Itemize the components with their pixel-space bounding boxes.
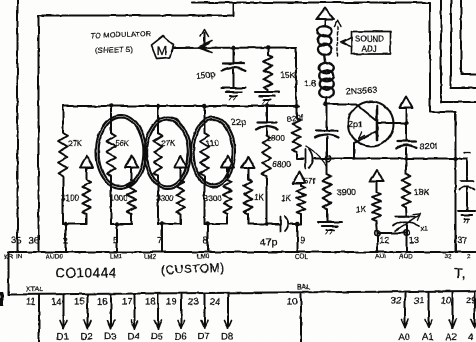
inductor lower winding 1.8: [319, 63, 334, 104]
junction pin12 node: [375, 230, 381, 236]
wire channel 3 to pin: [161, 224, 163, 252]
callout SOUND ADJ: [341, 32, 391, 55]
wire right bus corner 1: [441, 0, 476, 102]
arrow up channel 1: [80, 156, 93, 168]
junction channel 4 on bus: [202, 104, 206, 108]
label 47p: [260, 237, 278, 249]
resistor 1000 channel 2: [127, 168, 135, 225]
pin name AUI: [375, 254, 386, 261]
junction channel 1 bottom: [63, 222, 67, 226]
junction 6800 bottom: [265, 222, 268, 225]
inductor upper winding: [318, 26, 332, 63]
wire top horizontal net: [192, 2, 430, 4]
junction channel 3 on bus: [156, 104, 160, 108]
ellipse highlight 1: [96, 115, 146, 189]
label T: [454, 265, 466, 282]
pin 29 wire with arrow 4: [471, 293, 476, 328]
pin 11 wire: [38, 295, 40, 342]
label 1800: [267, 134, 285, 143]
capacitor 820f right: [397, 123, 417, 159]
arrow up channel 4: [221, 156, 234, 168]
junction output-820f: [326, 156, 331, 161]
ground bypass right: [459, 211, 476, 223]
pin 16 wire with arrow D3: [108, 295, 115, 329]
label 1.8: [304, 78, 316, 88]
label 3900: [337, 187, 356, 197]
label 6800: [272, 159, 291, 169]
label A2: [446, 332, 458, 342]
label 110 channel 4: [206, 139, 219, 148]
wire channel 1 bottom: [63, 223, 87, 225]
label 1K third: [356, 205, 366, 214]
label D3: [104, 332, 116, 342]
label 1000 channel 2: [110, 194, 128, 203]
pin number 15: [74, 297, 85, 308]
pin 19 wire with arrow D6: [178, 295, 185, 329]
resistor 110 channel 4: [200, 106, 209, 224]
label 56K channel 2: [115, 139, 130, 148]
ground below 15K: [255, 92, 279, 104]
pin number 35: [11, 236, 22, 247]
label D8: [221, 332, 233, 342]
resistor 1K second: [297, 183, 306, 224]
junction 150p: [231, 45, 235, 49]
pin number 2: [63, 236, 68, 247]
junction 1800 top: [294, 104, 298, 108]
pin number 24: [210, 297, 221, 308]
capacitor 57f series: [297, 146, 330, 168]
pin name AUD0: [46, 254, 63, 261]
wire pin-36 net (up and across top to right): [39, 3, 234, 253]
junction channel 3 bottom: [160, 222, 164, 226]
label 3300 channel 4: [204, 194, 222, 203]
resistor 3300 channel 4: [223, 168, 231, 225]
pin name COL: [295, 254, 308, 261]
trimmer capacitor: [393, 213, 421, 231]
label 150p: [195, 69, 216, 81]
resistor 56K channel 2: [107, 106, 116, 224]
resistor 3900: [323, 159, 332, 223]
pin 31 wire with arrow A1: [425, 293, 432, 328]
label (CUSTOM): [161, 261, 225, 277]
junction channel 2 on bus: [109, 104, 113, 108]
wire audio summing bus: [63, 105, 299, 107]
pin number 36: [29, 236, 40, 247]
label D1: [57, 332, 69, 342]
arrow up channel 2: [125, 156, 138, 168]
junction coil base: [323, 102, 327, 106]
junction collector cap: [404, 156, 408, 160]
wire right bus corner 2: [451, 0, 476, 88]
label 15K: [280, 70, 295, 80]
label 3100 channel 1: [61, 194, 79, 203]
label A1: [422, 332, 434, 342]
pin 14 wire with arrow D1: [60, 295, 67, 329]
wire 1K to 47p: [248, 223, 280, 225]
pin number 16: [97, 297, 108, 308]
wire channel 4 bottom: [205, 223, 228, 225]
resistor 1800: [292, 106, 301, 152]
resistor 15K: [264, 48, 273, 93]
label 57f: [304, 176, 316, 186]
IC CO10444 box outline: [9, 252, 476, 295]
tick mark: [464, 152, 470, 154]
pin number 11: [26, 297, 36, 308]
pin number 9: [300, 236, 305, 247]
pin number 10 right: [441, 296, 452, 307]
pin 17 wire with arrow D4: [131, 295, 138, 329]
label BAL: [297, 285, 310, 292]
junction 15K: [266, 45, 270, 49]
arrow up at modulator node: [201, 30, 209, 48]
label (SHEET 5): [95, 45, 134, 55]
junction channel 2 bottom: [115, 222, 119, 226]
power arrow 1K third: [370, 170, 384, 182]
pin name LM0: [197, 254, 210, 261]
label 4: [468, 332, 473, 342]
ground below 150p: [222, 88, 246, 100]
wire emitter down: [353, 143, 355, 159]
pin 10 BAL wire: [300, 294, 302, 342]
pin number 31 right: [414, 296, 425, 307]
pin number 10 left: [287, 297, 298, 308]
wire pin9: [297, 224, 299, 252]
pin name AOD: [399, 254, 413, 261]
pin name IN: [16, 254, 23, 261]
label D6: [175, 332, 187, 342]
pin number 12: [379, 236, 390, 247]
capacitor 150p: [222, 48, 245, 88]
label ADJ: [362, 45, 377, 54]
resistor 27K channel 3: [154, 106, 163, 224]
pin number 32 right: [391, 296, 402, 307]
pin name KR: [4, 254, 13, 261]
resistor 1K third: [372, 182, 381, 234]
pin 32 wire with arrow A0: [402, 293, 409, 328]
junction pin13 node: [404, 230, 410, 236]
pin 15 wire with arrow D2: [84, 295, 91, 329]
pin number 18: [145, 297, 156, 308]
wire channel 2 bottom: [111, 223, 132, 225]
label 820f right: [419, 141, 438, 152]
label 27K channel 1: [68, 139, 83, 148]
wire collector: [378, 122, 406, 124]
wire node down to audio bus: [295, 48, 297, 107]
pin number 19: [166, 297, 177, 308]
wire pin-35 net (long vertical from top edge): [17, 0, 19, 252]
resistor 6800: [262, 135, 271, 224]
pin number 17: [122, 297, 133, 308]
pin number 7: [157, 236, 162, 247]
wire trimmer to pins 12 13: [378, 225, 407, 252]
wire top-right jog down to pin 37: [430, 3, 456, 253]
pin 10 wire with arrow A2: [449, 293, 456, 328]
pin number 8: [203, 236, 208, 247]
ellipse highlight 2: [145, 117, 191, 189]
wire output node: [329, 158, 467, 160]
capacitor 47p: [281, 217, 302, 232]
label CO10444: [55, 266, 117, 281]
pin number 14: [51, 297, 62, 308]
scan smudge left edge: [0, 292, 4, 306]
pin number 23: [188, 297, 199, 308]
pin number 13: [409, 236, 420, 247]
capacitor 820f left: [316, 104, 339, 159]
label 1K first: [254, 193, 264, 202]
pin number 29 right: [466, 296, 476, 307]
label D5: [151, 332, 163, 342]
wire to bypass cap: [456, 159, 468, 182]
wire base from coil: [326, 103, 357, 105]
label 2N3563: [345, 85, 377, 97]
pin 23 wire with arrow D7: [201, 295, 208, 329]
label 27K channel 3: [161, 139, 176, 148]
label 3300 channel 3: [156, 194, 174, 203]
label D4: [128, 332, 140, 342]
label 22p: [231, 117, 246, 127]
wire right bus corner 3: [461, 0, 476, 74]
wire channel 3 bottom: [158, 223, 181, 225]
pin number 37: [457, 236, 468, 247]
ground below 3900: [318, 222, 342, 234]
pin name LM2: [144, 254, 157, 261]
junction pin37 wire: [453, 156, 457, 160]
arrowhead toward modulator: [198, 41, 213, 53]
pin number 5: [113, 236, 118, 247]
power arrow 1K first: [242, 157, 255, 169]
junction channel 4 bottom: [206, 222, 210, 226]
power arrow collector: [400, 97, 413, 124]
ellipse highlight 3: [191, 117, 235, 187]
power arrow 1K second: [293, 172, 306, 184]
resistor 18K: [402, 159, 411, 217]
pin 18 wire with arrow D5: [155, 295, 162, 329]
wire channel 1 to pin: [65, 224, 67, 252]
power arrow above coil: [317, 8, 334, 26]
capacitor 22p: [257, 106, 278, 135]
arrow up channel 3: [174, 156, 187, 168]
label XTAL: [26, 287, 43, 294]
junction collector: [404, 121, 408, 125]
resistor 1K first: [244, 168, 253, 224]
junction 22p on bus: [265, 104, 269, 108]
adjust dashed arrow: [334, 20, 341, 56]
capacitor bypass right: [460, 181, 475, 211]
resistor 3300 channel 3: [176, 168, 184, 225]
pin 24 wire with arrow D8: [225, 295, 232, 329]
pin name LM1: [110, 254, 123, 261]
label 1K second: [281, 194, 291, 203]
resistor 3100 channel 1: [82, 168, 90, 225]
junction emitter: [352, 157, 355, 160]
label TO MODULATOR: [91, 31, 152, 40]
label x1: [420, 224, 428, 233]
pin name 32: [445, 254, 453, 261]
label D2: [81, 332, 93, 342]
label A0: [398, 332, 410, 342]
wire modulator to node: [174, 47, 297, 50]
label 820f left: [286, 112, 304, 124]
pin name 2 fragment: [467, 254, 471, 261]
transistor Q1 2N3563: [349, 102, 394, 147]
junction pin9: [295, 222, 299, 226]
wire channel 2 to pin: [116, 224, 118, 252]
resistor 27K channel 1: [59, 106, 68, 224]
label 18K: [414, 187, 429, 197]
label D7: [198, 332, 210, 342]
modulator symbol M pentagon: [152, 36, 174, 59]
wire channel 4 to pin: [207, 224, 209, 252]
label SOUND: [355, 35, 384, 44]
